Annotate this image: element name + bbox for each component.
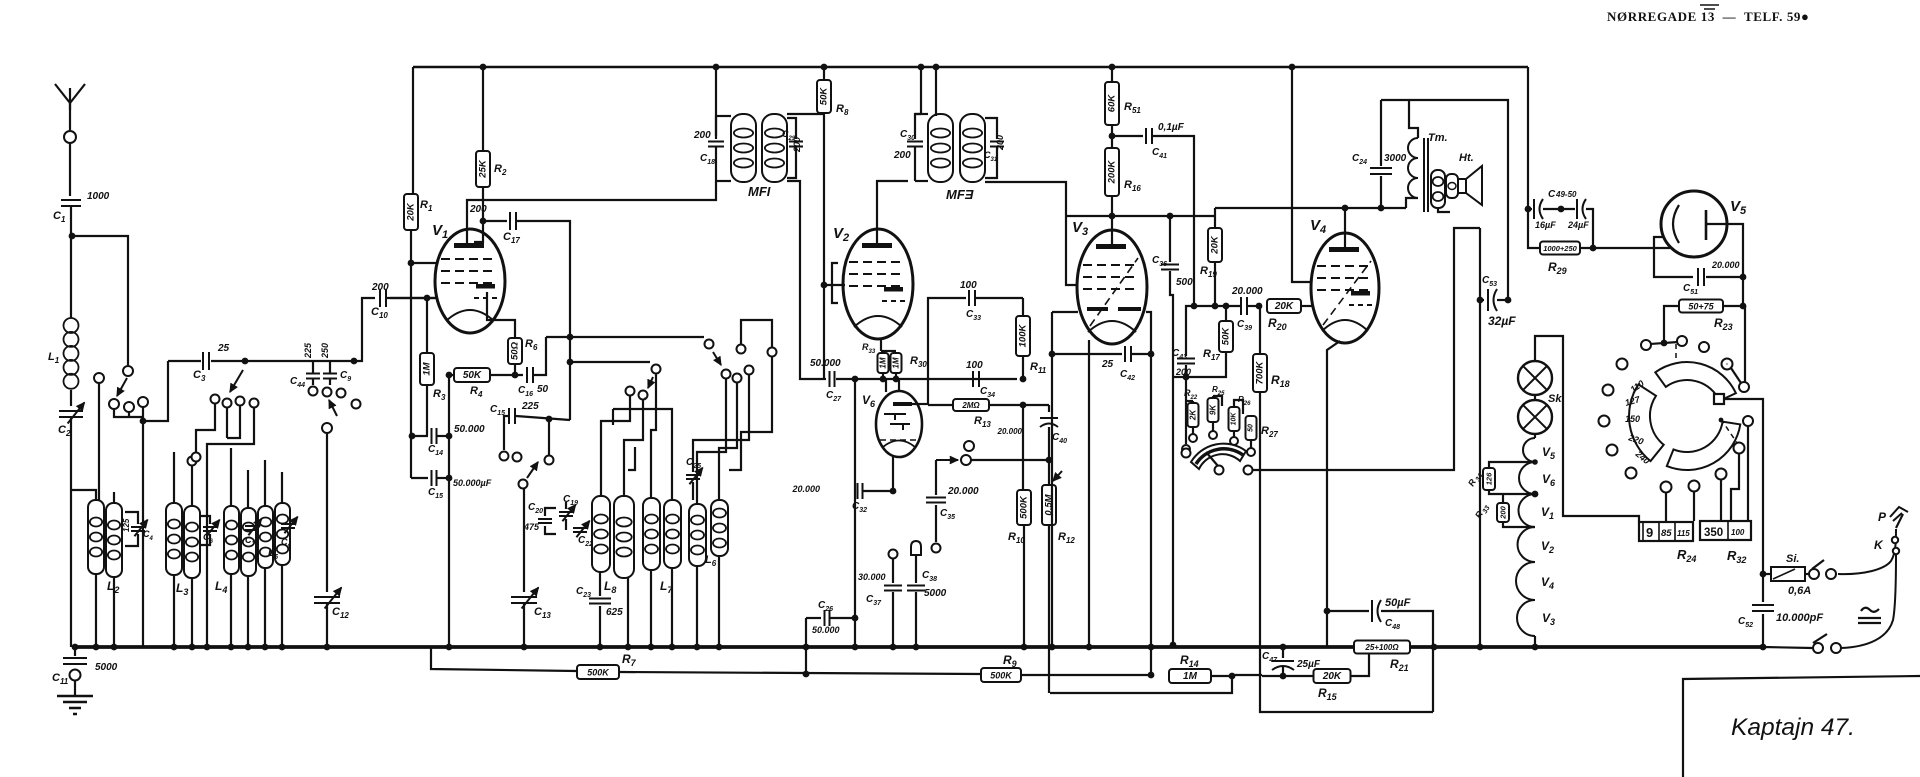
resistor R3 bbox=[426, 298, 428, 353]
capacitor C29 bbox=[787, 118, 796, 139]
svg-text:Kaptajn 47.: Kaptajn 47. bbox=[1731, 714, 1855, 741]
svg-text:NØRREGADE 13 — TELF. 59●: NØRREGADE 13 — TELF. 59● bbox=[1607, 9, 1809, 24]
capacitor C16 bbox=[527, 367, 533, 383]
capacitor C33 bbox=[928, 298, 966, 404]
svg-text:20.000: 20.000 bbox=[1231, 286, 1263, 297]
svg-text:20K: 20K bbox=[406, 202, 417, 222]
V5 plate lead bbox=[1706, 224, 1743, 277]
MFE primary bbox=[928, 114, 953, 182]
capacitor C15 225 bbox=[509, 408, 515, 424]
loudspeaker Ht bbox=[1446, 174, 1458, 198]
svg-text:16µF: 16µF bbox=[1535, 220, 1556, 230]
svg-text:500K: 500K bbox=[990, 671, 1013, 681]
switch S6 contacts bbox=[626, 387, 635, 396]
trimmer C19 bbox=[559, 512, 573, 516]
svg-text:20K: 20K bbox=[1274, 301, 1294, 312]
lamp top loop bbox=[1535, 336, 1639, 522]
capacitor C52 bbox=[1760, 644, 1767, 651]
osc line H1 bbox=[546, 336, 704, 338]
wire R14 node bbox=[1262, 675, 1283, 677]
svg-text:200: 200 bbox=[995, 135, 1005, 151]
electrolytic C48 bbox=[1324, 608, 1331, 615]
trimmer C25 bbox=[686, 475, 700, 479]
V3 plate line bbox=[1109, 213, 1116, 220]
plate supply line bbox=[1214, 208, 1216, 216]
oscillator coil L8 secondary bbox=[614, 496, 634, 578]
resistor R20 bbox=[1267, 299, 1301, 313]
resistor R11 bbox=[1022, 298, 1024, 316]
V5 cathode lead bbox=[1654, 237, 1693, 277]
svg-text:49-50: 49-50 bbox=[1555, 190, 1577, 199]
svg-text:5000: 5000 bbox=[95, 662, 118, 673]
V3 bottom lead bbox=[1088, 340, 1090, 647]
svg-text:P: P bbox=[1878, 510, 1887, 524]
resistor R9 box bbox=[981, 668, 1021, 682]
svg-text:25: 25 bbox=[217, 343, 230, 354]
svg-text:200: 200 bbox=[693, 130, 711, 141]
resistor R19 bbox=[1214, 216, 1216, 228]
oscillator coil L8 primary bbox=[592, 496, 610, 572]
switch S1 contacts bbox=[109, 399, 119, 409]
svg-text:32µF: 32µF bbox=[1488, 314, 1516, 328]
svg-text:475: 475 bbox=[523, 522, 540, 532]
svg-text:25: 25 bbox=[1101, 359, 1114, 370]
V3 cathode left bbox=[1051, 312, 1053, 354]
svg-text:625: 625 bbox=[606, 607, 623, 618]
svg-text:25+100Ω: 25+100Ω bbox=[1364, 643, 1399, 652]
resistor R17 bbox=[1225, 306, 1227, 321]
svg-text:100: 100 bbox=[966, 360, 983, 371]
S6 wires bbox=[601, 396, 630, 496]
oscillator coil L6 primary bbox=[689, 504, 706, 566]
output transformer Tm primary bbox=[1406, 198, 1418, 208]
capacitor C27 bbox=[830, 371, 835, 387]
svg-text:Si.: Si. bbox=[1786, 553, 1799, 565]
resistor R51 bbox=[1109, 64, 1116, 71]
capacitor C14 bbox=[432, 428, 437, 444]
V1 grid node bbox=[408, 260, 415, 267]
node C32 tap bbox=[852, 376, 859, 383]
capacitor C31 bbox=[985, 118, 997, 139]
V4 screen to bus bbox=[1289, 64, 1296, 71]
tuned coil L2 primary bbox=[88, 500, 104, 574]
MFE secondary bbox=[960, 114, 985, 182]
osc inner wires bbox=[613, 409, 672, 500]
capacitor C23 bbox=[599, 572, 601, 596]
resistor R14 bbox=[1169, 669, 1211, 683]
svg-text:200: 200 bbox=[371, 282, 389, 293]
output pentode V4 bbox=[1311, 233, 1379, 343]
dial dashes bbox=[1676, 344, 1737, 443]
svg-text:Ht.: Ht. bbox=[1459, 152, 1474, 164]
wire bus corner to C49 bbox=[1527, 67, 1529, 209]
resistor R15 bbox=[1314, 669, 1351, 683]
svg-text:25µF: 25µF bbox=[1296, 659, 1321, 670]
svg-text:C: C bbox=[1548, 189, 1556, 200]
resistor R21 bbox=[1354, 641, 1410, 654]
svg-text:50K: 50K bbox=[819, 87, 830, 106]
capacitor C26 bbox=[806, 617, 821, 619]
svg-text:9K: 9K bbox=[1209, 404, 1218, 415]
svg-text:1M: 1M bbox=[892, 357, 901, 368]
L6 leads bbox=[696, 566, 698, 647]
L5 leads bbox=[264, 568, 266, 647]
MFI sec to R8 bbox=[787, 113, 823, 115]
wire V5 to R23 bbox=[1742, 277, 1744, 306]
R21 tap bbox=[1351, 653, 1369, 676]
triode V6 bbox=[876, 391, 922, 457]
grid bracket bbox=[832, 263, 838, 303]
svg-text:200: 200 bbox=[469, 204, 487, 215]
svg-text:0,6A: 0,6A bbox=[1788, 585, 1811, 597]
V6 cathode lead bbox=[892, 455, 894, 491]
pot end contacts bbox=[1182, 449, 1191, 458]
voltage dial arc lower bbox=[1667, 422, 1741, 470]
triode-hexode V1 bbox=[435, 229, 505, 333]
ground bbox=[57, 696, 93, 714]
output transformer secondary bbox=[1431, 170, 1445, 208]
transformer core bbox=[1424, 138, 1428, 212]
wire to wave switch bbox=[72, 236, 128, 365]
switch S2 arm bbox=[329, 400, 337, 416]
electrolytic C47 bbox=[1280, 644, 1287, 651]
pot wiper bbox=[1206, 452, 1218, 466]
V1 cathode lead bbox=[487, 292, 515, 338]
tuned coil L5 secondary bbox=[275, 503, 290, 565]
svg-text:85: 85 bbox=[1661, 528, 1672, 539]
resistor R6 bbox=[508, 338, 522, 364]
svg-text:225: 225 bbox=[303, 342, 313, 359]
switch S6 arm bbox=[652, 365, 661, 374]
svg-text:1000: 1000 bbox=[87, 191, 110, 202]
capacitor C41 bbox=[1112, 135, 1143, 137]
resistor R32 bbox=[1700, 521, 1751, 540]
svg-text:1M: 1M bbox=[1183, 671, 1198, 682]
capacitor C44 bbox=[306, 374, 320, 379]
resistor R33b bbox=[1502, 494, 1504, 503]
svg-text:MFI: MFI bbox=[748, 184, 771, 199]
MFE sec to V3 grid bbox=[985, 182, 1078, 285]
selector arm bbox=[1744, 306, 1746, 382]
svg-text:20K: 20K bbox=[1210, 235, 1221, 255]
svg-text:25K: 25K bbox=[478, 159, 489, 179]
wire C3 line bbox=[168, 360, 201, 362]
capacitor C9 bbox=[323, 374, 337, 379]
V2 anode to MFE bbox=[877, 181, 908, 243]
capacitor C51 bbox=[1698, 268, 1704, 286]
trimmer C20 bbox=[545, 508, 556, 516]
svg-text:K: K bbox=[1874, 538, 1884, 552]
svg-text:500: 500 bbox=[1176, 277, 1193, 288]
resistor R18 bbox=[1259, 306, 1261, 354]
switch wiring web bbox=[196, 404, 215, 452]
L3 leads bbox=[173, 575, 175, 647]
capacitor C39 bbox=[1241, 297, 1247, 315]
fuse Si bbox=[1763, 573, 1771, 575]
svg-text:50.000: 50.000 bbox=[454, 424, 485, 435]
svg-text:24µF: 24µF bbox=[1567, 220, 1589, 230]
V2 cathode leads bbox=[880, 339, 882, 351]
resistor R29 bbox=[1528, 209, 1541, 248]
S7 wires bbox=[697, 379, 726, 504]
svg-text:1M: 1M bbox=[879, 357, 888, 368]
oscillator coil L6 secondary bbox=[711, 500, 728, 556]
R10 column bbox=[1022, 405, 1024, 490]
ground column bbox=[1479, 228, 1481, 647]
svg-text:20.000: 20.000 bbox=[947, 486, 979, 497]
variable capacitor C12 (tuning) bbox=[314, 597, 340, 603]
resistor R16 bbox=[1105, 148, 1119, 196]
resistor R23 bbox=[1679, 300, 1723, 313]
svg-text:200: 200 bbox=[792, 137, 802, 153]
gram terminal C37 bbox=[889, 550, 898, 559]
pot output wire bbox=[1253, 228, 1480, 470]
svg-text:30.000: 30.000 bbox=[858, 572, 886, 582]
AC symbol bbox=[1858, 608, 1881, 623]
title box frame bbox=[1683, 676, 1920, 777]
tuned coil L4 secondary bbox=[241, 508, 256, 576]
capacitor C35 bbox=[935, 460, 937, 495]
svg-text:2K: 2K bbox=[1189, 409, 1198, 421]
osc line H2 bbox=[570, 361, 650, 363]
resistor R27 tap bbox=[1246, 416, 1257, 440]
AVC ground tap bbox=[1173, 376, 1186, 378]
svg-text:20.000: 20.000 bbox=[1711, 260, 1740, 270]
svg-text:225: 225 bbox=[521, 401, 539, 412]
R7/R9 return line bbox=[431, 647, 576, 671]
tuned coil L3 primary bbox=[166, 503, 182, 575]
svg-text:9: 9 bbox=[1646, 525, 1653, 540]
oscillator coil L7 primary bbox=[643, 498, 660, 570]
resistor R4 bbox=[449, 374, 455, 376]
svg-text:500K: 500K bbox=[587, 668, 610, 678]
V4 cathode lead bbox=[1327, 341, 1340, 647]
MFI sec bottom drop bbox=[787, 181, 826, 379]
resistor R34 bbox=[1532, 459, 1538, 465]
node C3-right bbox=[242, 358, 249, 365]
voltage dial arc upper bbox=[1655, 362, 1736, 401]
L7 leads bbox=[650, 570, 652, 647]
capacitor C10 bbox=[380, 289, 386, 307]
V6 grid leads bbox=[885, 379, 887, 392]
switch S5 arm bbox=[519, 480, 528, 489]
svg-text:100: 100 bbox=[1731, 528, 1745, 537]
switch S3 contacts bbox=[211, 395, 220, 404]
gram terminal C38 bbox=[911, 541, 921, 555]
node A junction bbox=[69, 233, 76, 240]
tuned coil L2 secondary bbox=[106, 503, 122, 577]
switch S4 contacts bbox=[500, 452, 509, 461]
wire C3 left drop bbox=[145, 361, 168, 421]
heater chain bbox=[1534, 395, 1536, 400]
mains switch lower bbox=[1763, 647, 1812, 648]
capacitor C24 bbox=[1378, 205, 1385, 212]
svg-text:350: 350 bbox=[1704, 527, 1723, 539]
top supply bus bbox=[413, 66, 1528, 69]
resistor R13 bbox=[927, 404, 929, 405]
mains wire upper bbox=[1812, 560, 1824, 569]
svg-text:126: 126 bbox=[1485, 472, 1494, 485]
svg-text:100: 100 bbox=[960, 280, 977, 291]
svg-text:10.000pF: 10.000pF bbox=[1776, 612, 1823, 624]
wire C14 junction bbox=[409, 433, 416, 440]
svg-text:10K: 10K bbox=[1231, 412, 1238, 426]
tuned coil L4 primary bbox=[224, 506, 239, 574]
svg-text:20.000: 20.000 bbox=[997, 427, 1023, 436]
AVC line bbox=[1190, 305, 1240, 307]
electrolytic C49 bbox=[1525, 206, 1532, 213]
svg-text:60K: 60K bbox=[1107, 94, 1118, 113]
svg-text:50: 50 bbox=[537, 384, 549, 395]
switch S1 arm bbox=[123, 366, 133, 376]
resistor R8 bbox=[821, 64, 828, 71]
switch S2 contacts bbox=[337, 389, 346, 398]
heptode V2 bbox=[843, 229, 913, 339]
L8 right lead bbox=[627, 578, 629, 647]
resistor R2 bbox=[482, 67, 484, 151]
tuned coil L5 primary bbox=[258, 506, 273, 568]
svg-text:20.000: 20.000 bbox=[791, 484, 820, 494]
MFI secondary bbox=[762, 114, 787, 182]
switch S1 contact wire bbox=[114, 409, 143, 417]
switch S7 contacts bbox=[722, 370, 731, 379]
svg-text:1M: 1M bbox=[422, 361, 433, 375]
svg-text:100K: 100K bbox=[1018, 324, 1029, 348]
svg-text:50.000: 50.000 bbox=[812, 625, 840, 635]
C26 left drop bbox=[805, 618, 807, 674]
switch S3 arm bbox=[230, 370, 243, 392]
svg-text:MFƎ: MFƎ bbox=[946, 187, 974, 202]
wire bus to MFE a bbox=[918, 64, 925, 71]
resistor R33 bbox=[878, 353, 889, 373]
S7 crossover wire bbox=[741, 320, 772, 347]
switch S7 arm bbox=[705, 340, 714, 349]
L2 leads bbox=[95, 574, 97, 647]
dial pointer wire bbox=[1724, 399, 1763, 574]
svg-text:50K: 50K bbox=[1221, 327, 1232, 346]
capacitor C42 bbox=[1052, 353, 1122, 355]
filter cap C53 bbox=[1480, 299, 1484, 301]
svg-text:50Ω: 50Ω bbox=[510, 341, 521, 360]
svg-text:50µF: 50µF bbox=[1385, 597, 1411, 609]
capacitor C17 bbox=[483, 220, 507, 222]
capacitor C3 bbox=[203, 352, 209, 370]
volume switch bbox=[936, 459, 958, 461]
mains selector feed bbox=[1743, 305, 1745, 307]
svg-text:200: 200 bbox=[893, 150, 911, 161]
electrolytic C50 bbox=[1558, 206, 1565, 213]
svg-text:2MΩ: 2MΩ bbox=[961, 401, 980, 410]
V3 cathode ground bbox=[1051, 354, 1053, 647]
svg-text:3000: 3000 bbox=[1384, 153, 1407, 164]
svg-text:5000: 5000 bbox=[924, 588, 947, 599]
trimmer C22 bbox=[573, 528, 587, 532]
V4 anode lead bbox=[1344, 208, 1346, 250]
svg-text:50.000µF: 50.000µF bbox=[453, 478, 492, 488]
capacitor C32 bbox=[858, 483, 863, 499]
selector contact wires bbox=[1661, 482, 1672, 493]
pentode V3 bbox=[1077, 230, 1147, 344]
capacitor C21/27 left bbox=[823, 285, 825, 379]
svg-text:125: 125 bbox=[122, 518, 131, 532]
pilot lamp Sk2 bbox=[1518, 400, 1552, 434]
wire bus to MFI bbox=[713, 64, 720, 71]
capacitor C1 bbox=[61, 200, 81, 206]
svg-text:Tm.: Tm. bbox=[1428, 132, 1448, 144]
capacitor C36 bbox=[1169, 216, 1171, 262]
trimmer C6 bbox=[200, 516, 210, 524]
svg-text:200K: 200K bbox=[1107, 160, 1118, 185]
dial scale band bbox=[1629, 384, 1664, 461]
trimmer C8 bbox=[281, 524, 295, 528]
V1 anode to MFI bbox=[467, 182, 716, 246]
rectifier V5 bbox=[1661, 191, 1727, 257]
svg-text:50.000: 50.000 bbox=[810, 358, 841, 369]
antenna bbox=[69, 103, 71, 130]
R18 return line bbox=[1260, 392, 1433, 712]
oscillator coil L7 secondary bbox=[664, 500, 681, 568]
trimmer C4 bbox=[125, 512, 138, 524]
capacitor C18 bbox=[715, 116, 717, 139]
capacitor C34 bbox=[973, 371, 979, 387]
node C41 tap bbox=[1109, 133, 1116, 140]
svg-text:500K: 500K bbox=[1019, 495, 1030, 519]
L4 leads bbox=[230, 574, 232, 647]
dial pointer square bbox=[1714, 394, 1724, 404]
wire bus to MFE b bbox=[933, 64, 940, 71]
MFI primary bbox=[731, 114, 756, 182]
svg-text:50: 50 bbox=[1248, 424, 1255, 432]
variable capacitor C13 bbox=[523, 489, 525, 592]
capacitor C40 bbox=[1048, 405, 1050, 412]
V3 cathode line bbox=[1052, 311, 1078, 313]
resistor R30 bbox=[891, 353, 902, 373]
capacitor C43 bbox=[1185, 329, 1187, 356]
capacitor C30 bbox=[915, 114, 921, 139]
svg-text:115: 115 bbox=[1677, 529, 1690, 538]
dial stud ring bbox=[1617, 359, 1628, 370]
coil L1 bbox=[64, 318, 79, 333]
bottom ground bus bbox=[75, 645, 1354, 649]
V6 plate lead bbox=[912, 403, 928, 405]
svg-text:20K: 20K bbox=[1322, 671, 1342, 682]
resistor R7 box bbox=[577, 665, 619, 679]
svg-text:700K: 700K bbox=[1255, 361, 1266, 385]
trimmer C7 bbox=[245, 526, 259, 530]
pilot lamp Sk1 bbox=[1518, 361, 1552, 395]
resistor R10 bbox=[1017, 490, 1031, 525]
svg-text:150: 150 bbox=[1625, 414, 1640, 424]
cathode column bbox=[448, 375, 450, 647]
node grid R3 bbox=[424, 295, 431, 302]
capacitor C11 bbox=[74, 647, 76, 656]
resistor R1 bbox=[412, 67, 414, 194]
tuned coil L3 secondary bbox=[184, 506, 200, 578]
svg-text:0,1µF: 0,1µF bbox=[1158, 122, 1185, 133]
R23 contacts bbox=[1663, 336, 1665, 343]
svg-text:200: 200 bbox=[1499, 505, 1508, 519]
resistor R24 bbox=[1639, 522, 1693, 541]
svg-text:250: 250 bbox=[320, 343, 330, 359]
svg-text:50K: 50K bbox=[463, 370, 482, 381]
V1 anode lead bbox=[480, 218, 487, 225]
wire V3 to AVC bbox=[1186, 306, 1190, 329]
contact post bbox=[94, 373, 104, 383]
svg-text:1000+250: 1000+250 bbox=[1543, 244, 1577, 253]
tone pot arc bbox=[1191, 444, 1246, 469]
B+ line to rectifier bbox=[1381, 100, 1508, 300]
resistor R12 bbox=[1048, 460, 1050, 484]
